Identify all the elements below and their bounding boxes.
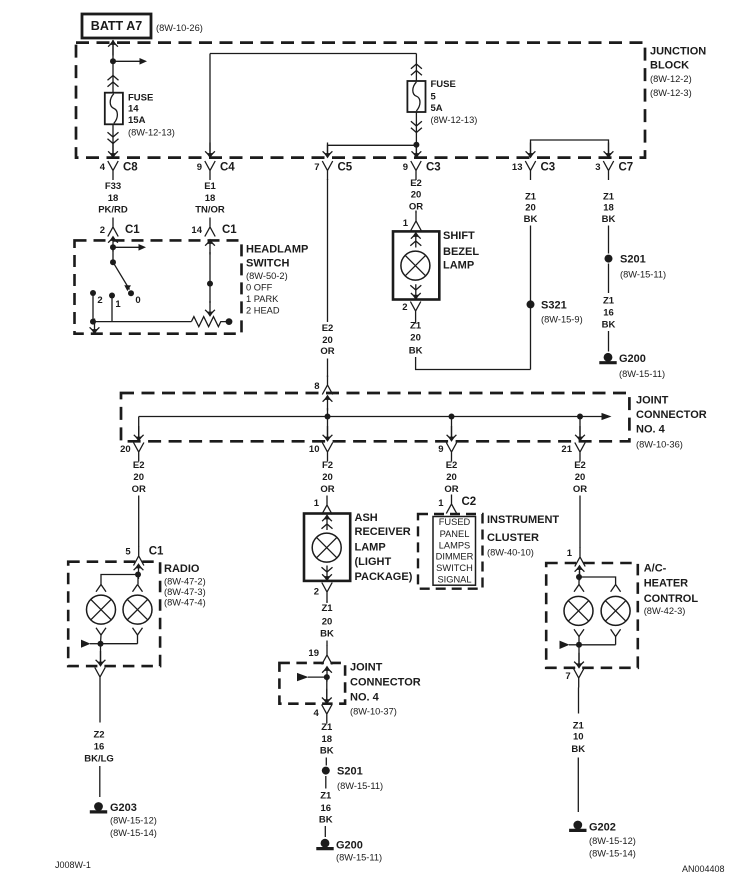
svg-text:E2: E2 xyxy=(446,460,458,471)
connector C5 pin 7 xyxy=(314,161,353,180)
svg-text:20: 20 xyxy=(133,472,144,483)
svg-text:C1: C1 xyxy=(125,224,140,236)
svg-text:SWITCH: SWITCH xyxy=(436,563,473,573)
ground G200 xyxy=(599,353,665,379)
svg-text:E1: E1 xyxy=(204,181,216,192)
ground G203 xyxy=(90,802,157,838)
svg-text:OR: OR xyxy=(320,484,334,495)
svg-text:7: 7 xyxy=(314,162,319,173)
svg-text:2: 2 xyxy=(100,225,105,236)
svg-text:20: 20 xyxy=(525,203,536,214)
svg-text:4: 4 xyxy=(100,162,106,173)
connector shift bezel pin 2 xyxy=(402,302,420,321)
joint connector no 4 label xyxy=(350,662,421,717)
wire arrow to headlamp circuit xyxy=(113,244,146,251)
connector joint connector no4 pin 8 xyxy=(314,376,332,395)
switch contact 2 xyxy=(90,290,103,322)
svg-text:21: 21 xyxy=(561,444,572,455)
ash receiver lower lead xyxy=(322,566,333,582)
svg-text:2: 2 xyxy=(402,302,407,313)
svg-text:20: 20 xyxy=(575,472,586,483)
connector shift bezel pin 1 xyxy=(403,212,422,248)
svg-text:(8W-15-11): (8W-15-11) xyxy=(336,853,382,863)
svg-text:(8W-15-9): (8W-15-9) xyxy=(541,314,583,324)
svg-text:15A: 15A xyxy=(128,115,146,126)
svg-text:OR: OR xyxy=(573,484,587,495)
joint connector no 4 box outline xyxy=(279,663,345,704)
svg-text:10: 10 xyxy=(573,732,584,743)
svg-text:14: 14 xyxy=(128,103,139,114)
node contact rail junction xyxy=(90,319,96,325)
node fuse 5 output junction xyxy=(413,142,419,148)
svg-text:5: 5 xyxy=(125,547,131,558)
wire fuse 5 to C3 xyxy=(411,112,422,158)
svg-text:1: 1 xyxy=(115,299,121,310)
svg-text:G202: G202 xyxy=(589,822,616,834)
svg-text:(8W-47-2): (8W-47-2) xyxy=(164,577,206,587)
svg-text:2 HEAD: 2 HEAD xyxy=(246,306,280,316)
svg-text:C1: C1 xyxy=(149,546,164,558)
svg-text:LAMP: LAMP xyxy=(443,260,474,272)
svg-text:G203: G203 xyxy=(110,802,137,814)
ground G200 (main) xyxy=(316,839,382,863)
svg-text:OR: OR xyxy=(444,484,458,495)
svg-text:BEZEL: BEZEL xyxy=(443,246,479,258)
svg-text:BK: BK xyxy=(524,214,538,225)
headlamp switch label xyxy=(246,244,308,316)
svg-text:(8W-12-13): (8W-12-13) xyxy=(128,128,175,138)
svg-text:C7: C7 xyxy=(619,162,634,174)
svg-text:C3: C3 xyxy=(541,162,556,174)
lamp ash receiver xyxy=(312,533,341,562)
wire dimmer wiper from C1-14 xyxy=(205,252,215,317)
svg-text:0 OFF: 0 OFF xyxy=(246,283,273,293)
svg-text:C1: C1 xyxy=(222,224,237,236)
fuse F14 15A xyxy=(105,93,175,138)
svg-text:NO. 4: NO. 4 xyxy=(636,424,666,436)
radio internal ground junction xyxy=(81,628,143,667)
svg-text:C3: C3 xyxy=(426,162,441,174)
svg-text:Z1: Z1 xyxy=(320,791,332,802)
svg-text:PACKAGE): PACKAGE) xyxy=(355,571,413,583)
svg-text:7: 7 xyxy=(565,671,570,682)
splice S201 (main ground) xyxy=(322,766,383,792)
wire fuse 5 junction to C5 xyxy=(323,143,417,159)
wire fuse 5 feed xyxy=(411,54,422,82)
svg-text:NO. 4: NO. 4 xyxy=(350,692,380,704)
svg-text:JUNCTION: JUNCTION xyxy=(650,46,706,58)
a/c heater control label xyxy=(644,563,699,616)
wire arrow to other circuits xyxy=(113,58,147,65)
connector band pin 10 xyxy=(309,443,333,462)
svg-text:1 PARK: 1 PARK xyxy=(246,294,279,304)
svg-text:(8W-15-11): (8W-15-11) xyxy=(337,781,383,791)
connector a/c heater pin 7 xyxy=(565,669,583,688)
svg-text:CONTROL: CONTROL xyxy=(644,593,699,605)
instrument cluster internal block xyxy=(433,517,476,586)
svg-text:20: 20 xyxy=(446,472,457,483)
svg-text:S321: S321 xyxy=(541,300,567,312)
svg-text:4: 4 xyxy=(314,708,320,719)
svg-text:PANEL: PANEL xyxy=(440,529,470,539)
connector C1 pin 2 (headlamp switch) xyxy=(100,218,141,252)
svg-text:(8W-10-36): (8W-10-36) xyxy=(636,439,683,449)
svg-text:14: 14 xyxy=(191,225,202,236)
ash receiver upper lead xyxy=(322,514,333,530)
svg-text:SHIFT: SHIFT xyxy=(443,230,475,242)
connector C1 pin 5 (radio) xyxy=(125,546,164,566)
connector C4 pin 9 xyxy=(197,161,236,180)
connector ash receiver lamp pin 1 xyxy=(314,496,332,515)
svg-text:(8W-10-26): (8W-10-26) xyxy=(156,23,203,33)
connector band pin 20 xyxy=(120,443,144,462)
svg-text:INSTRUMENT: INSTRUMENT xyxy=(487,514,559,526)
wire Z1 16 BK to G200 xyxy=(319,776,333,837)
svg-text:2: 2 xyxy=(97,295,102,306)
svg-text:RECEIVER: RECEIVER xyxy=(355,526,411,538)
wire Z1 18 BK xyxy=(320,722,334,766)
svg-text:LAMPS: LAMPS xyxy=(439,540,471,550)
svg-text:LAMP: LAMP xyxy=(355,541,386,553)
wire Z2 16 BK/LG xyxy=(84,687,114,798)
svg-text:0: 0 xyxy=(135,295,140,306)
svg-text:BK: BK xyxy=(409,346,423,357)
switch pivot node xyxy=(110,259,116,265)
lamp radio illumination right xyxy=(123,595,152,624)
lamp radio illumination left xyxy=(87,595,116,624)
svg-text:1: 1 xyxy=(314,498,320,509)
splice S201 xyxy=(605,254,667,280)
svg-text:2: 2 xyxy=(314,587,319,598)
rheostat resistor xyxy=(191,317,232,327)
connector C7 pin 3 xyxy=(595,161,633,180)
svg-text:F33: F33 xyxy=(105,181,121,192)
junction block outline xyxy=(76,43,645,158)
ground G202 xyxy=(569,821,636,859)
svg-text:3: 3 xyxy=(595,162,600,173)
svg-text:(8W-15-14): (8W-15-14) xyxy=(110,828,157,838)
fuse F5 5A xyxy=(407,79,477,125)
svg-text:RADIO: RADIO xyxy=(164,563,200,575)
svg-text:Z1: Z1 xyxy=(321,722,333,733)
wire F33 18 PK/RD xyxy=(98,181,128,216)
svg-text:20: 20 xyxy=(322,335,333,346)
svg-text:E2: E2 xyxy=(322,323,334,334)
svg-text:E2: E2 xyxy=(574,460,586,471)
connector ash receiver pin 2 xyxy=(314,583,332,602)
a/c heater internal feed junction xyxy=(574,565,621,592)
svg-text:(8W-15-12): (8W-15-12) xyxy=(589,836,636,846)
svg-text:10: 10 xyxy=(309,444,320,455)
node bus junction pin 10 xyxy=(323,414,333,442)
svg-text:9: 9 xyxy=(438,444,443,455)
svg-text:FUSE: FUSE xyxy=(431,79,456,90)
svg-text:BATT A7: BATT A7 xyxy=(91,19,142,33)
instrument cluster label xyxy=(487,514,559,558)
svg-text:20: 20 xyxy=(120,444,131,455)
svg-text:(LIGHT: (LIGHT xyxy=(355,556,392,568)
switch blade to position 0 xyxy=(113,262,141,306)
svg-text:F2: F2 xyxy=(322,460,333,471)
svg-text:16: 16 xyxy=(94,742,105,753)
svg-text:FUSE: FUSE xyxy=(128,93,153,104)
svg-text:5A: 5A xyxy=(431,103,443,114)
wire Z1 10 BK xyxy=(571,688,585,813)
svg-text:BK: BK xyxy=(602,214,616,225)
svg-text:13: 13 xyxy=(512,162,523,173)
svg-text:BK: BK xyxy=(571,744,585,755)
svg-text:BK: BK xyxy=(602,320,616,331)
svg-text:BLOCK: BLOCK xyxy=(650,60,689,72)
svg-text:9: 9 xyxy=(197,162,202,173)
svg-text:C5: C5 xyxy=(338,162,353,174)
svg-text:DIMMER: DIMMER xyxy=(436,551,474,561)
instrument cluster outline xyxy=(418,514,483,589)
shift bezel lower lead xyxy=(410,284,421,300)
wire fuse 14 to connector C8 xyxy=(108,124,119,158)
svg-text:OR: OR xyxy=(132,484,146,495)
svg-text:Z1: Z1 xyxy=(573,720,585,731)
wire E2 20 OR from C5 xyxy=(320,179,334,377)
wire Z1 18 BK from C7 xyxy=(602,191,616,253)
wire E2 20 OR (a/c heater feed) xyxy=(573,460,587,548)
wire Z1 20 BK (ash lamp ground) xyxy=(320,601,334,646)
svg-text:S201: S201 xyxy=(620,254,646,266)
svg-text:16: 16 xyxy=(321,803,332,814)
svg-text:JOINT: JOINT xyxy=(350,662,383,674)
wire Z1 20 BK from C3-13 to S321 xyxy=(524,191,538,369)
svg-text:ASH: ASH xyxy=(355,512,378,524)
svg-text:CONNECTOR: CONNECTOR xyxy=(350,677,421,689)
svg-text:BK: BK xyxy=(319,815,333,826)
svg-text:(8W-50-2): (8W-50-2) xyxy=(246,271,288,281)
svg-text:CONNECTOR: CONNECTOR xyxy=(636,409,707,421)
svg-text:A/C-: A/C- xyxy=(644,563,667,575)
svg-text:(8W-12-3): (8W-12-3) xyxy=(650,88,692,98)
joint connector no 4 band label xyxy=(636,395,707,450)
svg-text:(8W-15-11): (8W-15-11) xyxy=(620,269,666,279)
svg-text:(8W-15-14): (8W-15-14) xyxy=(589,849,636,859)
svg-text:JOINT: JOINT xyxy=(636,395,669,407)
svg-text:Z1: Z1 xyxy=(525,191,537,202)
connector C1 pin 14 (headlamp switch) xyxy=(191,218,237,255)
svg-text:BK: BK xyxy=(320,629,334,640)
connector a/c heater control pin 1 xyxy=(567,548,585,567)
wire contact rail xyxy=(93,321,191,323)
svg-text:1: 1 xyxy=(403,218,409,229)
svg-text:(8W-47-3): (8W-47-3) xyxy=(164,587,206,597)
battery feed box BATT A7 xyxy=(82,14,203,38)
connector C2 pin 1 (instrument cluster) xyxy=(438,495,476,514)
svg-text:S201: S201 xyxy=(337,766,363,778)
wire BATT A7 to fuse 14 xyxy=(108,40,119,93)
svg-text:9: 9 xyxy=(403,162,408,173)
svg-text:Z1: Z1 xyxy=(603,296,615,307)
arrow to ground path xyxy=(90,319,100,335)
joint connector internal bus xyxy=(134,395,612,442)
radio label xyxy=(164,563,206,608)
headlamp switch outline xyxy=(75,240,242,333)
wire E2 20 OR (radio feed) xyxy=(132,460,146,547)
node bus junction pin 9 xyxy=(447,414,457,442)
svg-text:AN004408: AN004408 xyxy=(682,864,725,874)
svg-text:CLUSTER: CLUSTER xyxy=(487,532,539,544)
svg-text:18: 18 xyxy=(322,734,333,745)
svg-text:Z1: Z1 xyxy=(603,191,615,202)
svg-text:20: 20 xyxy=(410,333,421,344)
svg-text:SIGNAL: SIGNAL xyxy=(437,574,471,584)
svg-text:OR: OR xyxy=(320,346,334,357)
wire junction block internal bus to C4 xyxy=(205,54,416,159)
connector C3 pin 9 xyxy=(403,161,441,180)
svg-text:18: 18 xyxy=(108,193,119,204)
ash receiver lamp box xyxy=(304,512,413,583)
connector band pin 21 xyxy=(561,443,585,462)
svg-text:C2: C2 xyxy=(462,496,477,508)
svg-text:HEADLAMP: HEADLAMP xyxy=(246,244,308,256)
svg-text:20: 20 xyxy=(322,472,333,483)
svg-text:(8W-47-4): (8W-47-4) xyxy=(164,598,206,608)
svg-text:1: 1 xyxy=(567,548,573,559)
connector joint connector no 4 pin 19 xyxy=(308,646,332,665)
wire E1 18 TN/OR xyxy=(195,181,225,216)
wire Z1 20 BK (shift bezel ground) xyxy=(409,321,531,370)
svg-text:(8W-12-13): (8W-12-13) xyxy=(431,115,478,125)
node bus junction pin 21 xyxy=(575,414,585,442)
shift bezel lamp box xyxy=(393,230,479,299)
svg-text:C4: C4 xyxy=(220,162,235,174)
lamp shift bezel xyxy=(401,251,430,280)
a/c heater internal ground junction xyxy=(560,629,621,668)
node battery feed junction xyxy=(110,58,116,64)
svg-text:E2: E2 xyxy=(410,178,422,189)
junction block label xyxy=(650,46,706,99)
svg-text:E2: E2 xyxy=(133,460,145,471)
svg-text:(8W-15-11): (8W-15-11) xyxy=(619,369,665,379)
connector radio ground pin xyxy=(95,668,105,687)
svg-text:Z2: Z2 xyxy=(93,730,104,741)
svg-text:FUSED: FUSED xyxy=(439,517,471,527)
wire Z1 16 BK to G200 xyxy=(602,264,616,352)
svg-text:8: 8 xyxy=(314,381,319,392)
svg-text:20: 20 xyxy=(322,617,333,628)
radio box outline xyxy=(68,562,160,666)
svg-text:20: 20 xyxy=(411,190,422,201)
a/c heater control box outline xyxy=(546,563,638,668)
lamp a/c heater right xyxy=(601,596,630,625)
wire E2 20 OR (shift bezel feed) xyxy=(409,178,423,213)
svg-text:G200: G200 xyxy=(619,353,646,365)
lamp a/c heater left xyxy=(564,596,593,625)
svg-text:J008W-1: J008W-1 xyxy=(55,860,91,870)
svg-text:18: 18 xyxy=(205,193,216,204)
wire F2 20 OR (ash lamp feed) xyxy=(320,460,334,495)
joint connector no 4 band outline xyxy=(121,393,629,441)
svg-text:G200: G200 xyxy=(336,840,363,852)
svg-text:(8W-40-10): (8W-40-10) xyxy=(487,548,534,558)
wire E2 20 OR (cluster feed) xyxy=(444,460,458,495)
node headlamp switch feed junction xyxy=(110,244,116,262)
svg-text:19: 19 xyxy=(308,648,319,659)
connector C3 pin 13 xyxy=(512,161,555,180)
connector C8 pin 4 xyxy=(100,161,139,180)
svg-text:C8: C8 xyxy=(123,162,138,174)
svg-text:BK: BK xyxy=(320,746,334,757)
svg-text:(8W-10-37): (8W-10-37) xyxy=(350,707,397,717)
svg-text:SWITCH: SWITCH xyxy=(246,258,289,270)
svg-text:Z1: Z1 xyxy=(321,603,333,614)
connector band pin 9 xyxy=(438,443,456,462)
svg-text:TN/OR: TN/OR xyxy=(195,205,225,216)
svg-text:(8W-15-12): (8W-15-12) xyxy=(110,816,157,826)
splice S321 xyxy=(527,300,583,325)
svg-text:18: 18 xyxy=(603,203,614,214)
svg-text:5: 5 xyxy=(431,92,437,103)
svg-text:BK/LG: BK/LG xyxy=(84,754,114,765)
svg-text:PK/RD: PK/RD xyxy=(98,205,128,216)
switch contact 1 xyxy=(109,293,121,322)
svg-text:1: 1 xyxy=(438,498,444,509)
radio internal feed junction xyxy=(96,563,143,592)
svg-text:16: 16 xyxy=(603,308,614,319)
svg-text:Z1: Z1 xyxy=(410,321,422,332)
svg-text:HEATER: HEATER xyxy=(644,578,688,590)
junction block internal bus C3-13 to C7 xyxy=(526,140,614,158)
svg-text:(8W-42-3): (8W-42-3) xyxy=(644,606,686,616)
connector joint connector no 4 pin 4 xyxy=(314,705,332,724)
svg-text:(8W-12-2): (8W-12-2) xyxy=(650,74,692,84)
joint connector no 4 internal junction xyxy=(297,666,332,705)
